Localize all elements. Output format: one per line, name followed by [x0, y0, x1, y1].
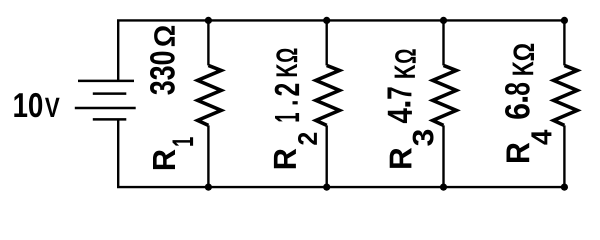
junction dot top of R3 branch [440, 17, 447, 24]
battery B1 plate short [93, 92, 127, 95]
label R3 value digit 7 [388, 87, 412, 98]
label R2 subscript 2 [298, 133, 317, 145]
wire R2 bottom lead [326, 125, 328, 187]
label R3 value period [405, 102, 410, 107]
label R1 unit ohm [154, 26, 175, 46]
label R4 unit ohm [513, 44, 534, 61]
resistor R3 zigzag [433, 65, 457, 125]
wire bottom rail and left rise to battery negative [118, 119, 564, 187]
battery label 10 [14, 93, 42, 117]
label R2 value digit 1 [275, 113, 299, 122]
resistor R1 zigzag [198, 65, 222, 125]
wire R3 top lead [442, 20, 444, 65]
label R1 value 330 [150, 52, 175, 95]
wire R2 top lead [326, 20, 328, 65]
resistor R2 zigzag [316, 65, 340, 125]
junction dot top of R4 branch [561, 17, 568, 24]
label R3 subscript 3 [413, 130, 434, 146]
battery B1 plate long [75, 107, 136, 110]
junction dot top of R2 branch [323, 17, 330, 24]
label R2 unit ohm [276, 49, 297, 63]
wire R1 top lead [207, 20, 209, 65]
battery label V [45, 98, 60, 117]
label R3 unit K [395, 65, 415, 78]
label R2 value period [293, 101, 298, 104]
label R1 subscript 1 [173, 137, 194, 145]
junction dot top of R1 branch [205, 17, 212, 24]
label R2 letter R [274, 149, 296, 169]
junction dot bottom of R2 branch [323, 184, 330, 191]
label R2 unit K [276, 64, 297, 76]
wire R3 bottom lead [442, 125, 444, 187]
label R3 unit ohm [395, 49, 416, 63]
label R1 letter R [153, 150, 175, 170]
junction dot bottom of R4 branch [561, 184, 568, 191]
label R4 subscript 4 [531, 130, 551, 145]
label R4 value period [523, 97, 528, 102]
battery B1 plate short bottom (-) [93, 118, 127, 121]
wire R1 bottom lead [207, 125, 209, 187]
battery B1 plate long top (+) [78, 80, 134, 83]
label R3 letter R [390, 148, 412, 168]
label R4 unit K [513, 61, 534, 74]
label R3 value digit 4 [388, 108, 412, 123]
wire R4 top lead [563, 20, 565, 65]
wire R4 bottom lead [563, 125, 565, 187]
label R4 value digit 6 [505, 104, 530, 119]
label R4 value digit 8 [505, 83, 530, 95]
resistor R4 zigzag [554, 65, 578, 125]
junction dot bottom of R3 branch [440, 184, 447, 191]
junction dot bottom of R1 branch [205, 184, 212, 191]
label R2 value digit 2 [275, 84, 299, 96]
label R4 letter R [507, 143, 530, 162]
wire top rail and left drop to battery positive [118, 20, 564, 81]
